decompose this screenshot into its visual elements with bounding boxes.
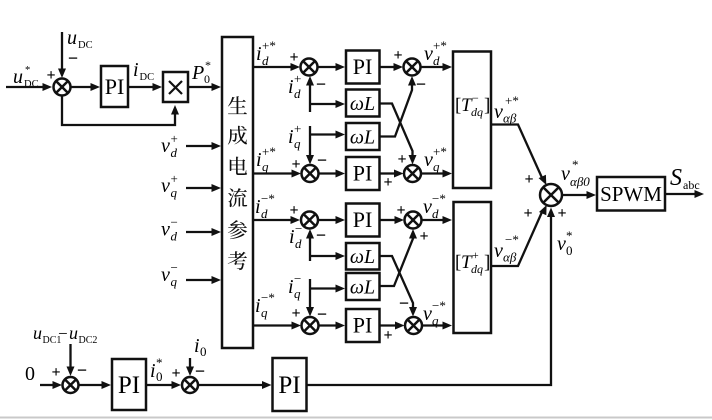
svg-text:DC: DC — [140, 72, 155, 83]
svg-text:+*: +* — [262, 38, 276, 53]
svg-text:0: 0 — [200, 344, 207, 359]
plus sign after PI5 — [383, 327, 392, 344]
svg-text:+: + — [291, 305, 300, 322]
svg-text:ωL: ωL — [350, 127, 375, 149]
svg-text:PI: PI — [353, 54, 373, 79]
node v_ab-* label — [494, 232, 519, 265]
wire i_d-* to summer S4 — [253, 216, 300, 224]
wire 0 into summer B1 — [40, 381, 62, 389]
svg-text:v: v — [561, 163, 570, 185]
svg-text:i: i — [150, 360, 156, 382]
svg-text:αβ: αβ — [503, 250, 517, 265]
svg-text:+: + — [51, 364, 60, 381]
svg-text:+: + — [289, 202, 298, 219]
summing junction B2 — [182, 377, 198, 393]
svg-text:−*: −* — [261, 290, 275, 305]
node i_q+ feedback label — [288, 121, 301, 151]
summing junction B1 — [63, 377, 79, 393]
node i_q-* label — [255, 290, 275, 320]
svg-text:0: 0 — [156, 369, 163, 384]
node zero reference label — [25, 363, 35, 385]
wire i_0 into summer B2 — [186, 358, 194, 376]
svg-text:−*: −* — [432, 191, 446, 206]
svg-text:v: v — [161, 175, 170, 197]
svg-text:v: v — [161, 264, 170, 286]
svg-text:DC2: DC2 — [79, 335, 98, 346]
svg-text:+: + — [557, 205, 566, 222]
minus sign at summer S3 — [317, 150, 327, 170]
node v_q- label — [161, 260, 178, 289]
wire i_q-* to summer S5 — [253, 322, 301, 330]
svg-text:u: u — [13, 66, 23, 88]
svg-text:+*: +* — [262, 144, 276, 159]
svg-text:−*: −* — [432, 298, 446, 313]
wire S1 to PI block PI1 — [70, 83, 100, 91]
node u_DC top input label — [67, 27, 93, 51]
PI controller PI5 — [346, 309, 380, 342]
summing junction S5 — [302, 317, 319, 334]
minus sign at junction J4 top — [399, 293, 409, 313]
node u_DC1 minus u_DC2 label — [33, 323, 97, 346]
svg-text:P: P — [191, 62, 204, 84]
svg-text:i: i — [289, 226, 295, 248]
plus sign final summer upper-left — [524, 171, 533, 188]
svg-text:i: i — [288, 76, 294, 98]
svg-text:S: S — [670, 165, 682, 191]
svg-text:+: + — [393, 47, 402, 64]
svg-text:αβ: αβ — [503, 111, 517, 126]
wire J1 to transform T1 — [420, 63, 452, 71]
svg-text:+*: +* — [433, 144, 447, 159]
svg-text:−*: −* — [261, 191, 275, 206]
wire PI6 to summer B2 — [146, 381, 181, 389]
node v_ab0* label — [561, 157, 590, 189]
wire J2 to transform T1 — [421, 170, 453, 178]
svg-text:PI: PI — [118, 372, 140, 399]
wire B2 to PI block PI7 — [198, 381, 272, 389]
wire feedback S1 to multiplier bottom — [62, 95, 179, 125]
svg-text:PI: PI — [353, 207, 373, 232]
plus sign at summer S2 — [289, 49, 298, 66]
summing junction S2 — [301, 59, 318, 76]
block: current reference generator (sheng cheng dian liu can kao) — [222, 37, 253, 348]
wire PI4 to junction J3 — [380, 216, 405, 224]
plus sign at summer S3 — [291, 156, 300, 173]
svg-text:−: − — [472, 91, 479, 105]
PI controller PI1 — [101, 66, 128, 107]
plus sign at summer S5 — [291, 305, 300, 322]
svg-text:d: d — [294, 86, 301, 101]
wire PI2 to junction J1 — [380, 63, 404, 71]
wire T2 output to final summer — [491, 205, 547, 266]
svg-text:i: i — [255, 196, 261, 218]
node S_abc output label — [670, 165, 700, 192]
svg-text:i: i — [133, 59, 139, 81]
plus sign at summer B1 — [51, 364, 60, 381]
svg-text:i: i — [256, 149, 262, 171]
svg-text:d: d — [261, 206, 268, 221]
node v_ab+* label — [494, 93, 519, 126]
svg-text:abc: abc — [683, 178, 700, 192]
PI controller PI7 — [273, 358, 307, 411]
wire P_0* into reference generator — [188, 83, 221, 91]
gain block wL1 — [346, 90, 380, 117]
node i_q+* label — [256, 144, 276, 174]
node i_0* label — [150, 355, 163, 384]
svg-text:−: − — [294, 271, 301, 286]
wire u_DC* into summer S1 — [6, 83, 52, 91]
wire i_d+ stub into summer S2 and branch to wL1 — [306, 76, 345, 112]
wire final summer to SPWM — [562, 191, 596, 199]
svg-text:+: + — [524, 171, 533, 188]
svg-text:0: 0 — [566, 243, 573, 258]
plus sign at junction J3 bottom — [419, 228, 428, 245]
wire v_d- into reference generator — [186, 228, 221, 236]
svg-text:u: u — [33, 323, 42, 343]
summing junction J4 — [405, 317, 422, 334]
svg-text:dq: dq — [471, 105, 483, 119]
svg-text:u: u — [67, 27, 77, 49]
summing junction S1 — [54, 79, 71, 96]
wire PI1 to multiplier — [128, 83, 162, 91]
svg-text:PI: PI — [105, 74, 125, 99]
wire v_0* from PI7 up to final summer — [307, 208, 556, 386]
svg-text:+: + — [171, 171, 178, 186]
svg-text:+: + — [472, 248, 479, 262]
wire T1 output to final summer — [491, 125, 546, 186]
svg-text:*: * — [572, 157, 579, 172]
svg-text:*: * — [205, 58, 211, 72]
svg-text:−: − — [68, 48, 78, 68]
svg-text:+: + — [383, 327, 392, 344]
svg-text:i: i — [288, 276, 294, 298]
plus sign at summer S4 — [289, 202, 298, 219]
wire wL2 cross-couple up to J1 — [380, 76, 417, 137]
node v_d+ label — [161, 131, 178, 160]
svg-text:PI: PI — [353, 313, 373, 338]
svg-text:−: − — [58, 324, 68, 343]
wire S5 to PI block PI5 — [318, 322, 345, 330]
svg-text:−: − — [317, 150, 327, 170]
plus sign at junction J3 — [396, 202, 405, 219]
svg-text:ωL: ωL — [350, 246, 375, 268]
svg-text:DC: DC — [78, 40, 93, 51]
svg-text:+: + — [397, 151, 406, 168]
minus sign at summer S5 — [317, 304, 327, 324]
svg-text:v: v — [494, 101, 503, 123]
svg-text:d: d — [171, 229, 178, 244]
svg-text:q: q — [171, 185, 178, 200]
node v_d-* label — [423, 191, 446, 221]
svg-text:−: − — [399, 293, 409, 313]
wire wL4 cross-couple up to J3 — [380, 229, 418, 286]
svg-text:*: * — [25, 65, 30, 76]
svg-text:−: − — [195, 361, 205, 381]
wire v_d+ into reference generator — [186, 142, 221, 150]
node v_q+ label — [161, 171, 178, 200]
wire v_q- into reference generator — [186, 276, 221, 284]
minus sign at junction J1 bottom — [416, 74, 426, 94]
minus sign at summer S1 — [68, 48, 78, 68]
gain block wL4 — [346, 273, 380, 300]
svg-text:−: − — [295, 221, 302, 236]
gain block wL3 — [346, 243, 380, 270]
svg-text:v: v — [423, 196, 432, 218]
summing junction J3 — [405, 212, 422, 229]
node P_0* label — [191, 58, 211, 86]
plus sign final summer lower-left — [523, 205, 532, 222]
wire v_q+ into reference generator — [186, 184, 221, 192]
wire S3 to PI block PI3 — [318, 170, 345, 178]
svg-text:d: d — [262, 53, 269, 68]
node i_d+* label — [256, 38, 276, 68]
wire i_d+* to summer S2 — [253, 63, 300, 71]
plus sign at summer B2 — [171, 365, 180, 382]
plus sign at summer S1 — [46, 67, 55, 84]
svg-text:d: d — [433, 53, 440, 68]
summing junction S3 — [302, 165, 319, 182]
svg-text:DC: DC — [24, 79, 39, 90]
svg-text:d: d — [171, 145, 178, 160]
svg-text:v: v — [424, 149, 433, 171]
node v_q-* label — [423, 298, 446, 328]
node i_d+ feedback label — [288, 71, 301, 101]
node v_0* label — [557, 228, 573, 258]
node i_d- feedback label — [289, 221, 302, 251]
svg-text:q: q — [294, 136, 301, 151]
svg-text:+: + — [419, 228, 428, 245]
wire PI3 to junction J2 — [380, 170, 404, 178]
svg-text:v: v — [423, 303, 432, 325]
svg-text:PI: PI — [353, 161, 373, 186]
plus sign at junction J2 top — [397, 151, 406, 168]
node v_d- label — [161, 215, 178, 244]
wire S4 to PI block PI4 — [318, 216, 346, 224]
PI controller PI3 — [346, 157, 380, 190]
minus sign at summer B1 — [77, 360, 87, 380]
wire i_q- stub into summer S5 and branch to wL4 — [306, 279, 345, 317]
svg-text:+: + — [383, 174, 392, 191]
summing junction J1 — [404, 59, 421, 76]
svg-text:q: q — [262, 159, 269, 174]
svg-text:0: 0 — [25, 363, 35, 385]
node i_q- feedback label — [288, 271, 301, 301]
svg-text:i: i — [288, 126, 294, 148]
multiplier block X1 — [163, 72, 188, 102]
svg-text:+: + — [289, 49, 298, 66]
svg-text:αβ0: αβ0 — [570, 174, 590, 189]
svg-text:0: 0 — [204, 72, 210, 86]
summing junction C (final) — [540, 184, 562, 206]
svg-text:v: v — [557, 233, 566, 255]
wire i_q+* to summer S3 — [253, 170, 301, 178]
node v_q+* label — [424, 144, 447, 174]
minus sign at summer S4 — [316, 225, 326, 245]
svg-text:−*: −* — [505, 232, 519, 247]
svg-text:]: ] — [484, 95, 490, 116]
wire B1 to PI block PI6 — [78, 381, 111, 389]
svg-text:+: + — [294, 71, 301, 86]
wire u_DC1-u_DC2 into summer B1 — [67, 344, 75, 376]
svg-text:−: − — [416, 74, 426, 94]
PI controller PI2 — [346, 51, 380, 84]
PI controller PI4 — [346, 204, 380, 237]
svg-text:+: + — [523, 205, 532, 222]
wire i_d- stub into summer S4 and branch to wL3 — [306, 229, 345, 261]
svg-text:ωL: ωL — [350, 93, 375, 115]
svg-text:−: − — [171, 215, 178, 230]
svg-text:*: * — [156, 355, 163, 370]
gain block wL2 — [346, 123, 380, 150]
svg-text:+: + — [294, 121, 301, 136]
summing junction S4 — [301, 212, 318, 229]
node i_0 feedback label — [194, 335, 207, 359]
node i_DC label — [133, 59, 154, 83]
transform block T1 [T_dq-] — [453, 52, 491, 189]
svg-text:v: v — [494, 240, 503, 262]
svg-text:]: ] — [484, 252, 490, 273]
svg-text:v: v — [424, 43, 433, 65]
wire J4 to transform T2 — [422, 322, 453, 330]
svg-text:+: + — [291, 156, 300, 173]
plus sign at junction J1 — [393, 47, 402, 64]
minus sign at summer B2 — [195, 361, 205, 381]
svg-text:+: + — [171, 131, 178, 146]
svg-text:−: − — [171, 260, 178, 275]
plus sign after PI3 — [383, 174, 392, 191]
node u_DC* input label — [13, 65, 39, 90]
svg-text:PI: PI — [278, 372, 300, 399]
svg-text:+*: +* — [433, 38, 447, 53]
svg-text:v: v — [161, 135, 170, 157]
wire i_q+ stub into summer S3 and branch to wL2 — [306, 126, 345, 165]
wire u_DC down into summer S1 — [58, 32, 66, 78]
summing junction J2 — [404, 165, 421, 182]
wire wL1 cross-couple down to J2 — [380, 104, 417, 165]
node i_d-* label — [255, 191, 275, 221]
svg-text:i: i — [255, 295, 261, 317]
svg-text:i: i — [194, 335, 200, 357]
svg-text:*: * — [566, 228, 573, 243]
svg-text:SPWM: SPWM — [600, 182, 662, 206]
wire PI5 to junction J4 — [380, 322, 405, 330]
svg-text:+*: +* — [505, 93, 519, 108]
svg-text:−: − — [316, 225, 326, 245]
svg-text:q: q — [171, 274, 178, 289]
svg-text:q: q — [261, 305, 268, 320]
svg-text:q: q — [433, 159, 440, 174]
svg-text:+: + — [171, 365, 180, 382]
minus sign at summer S2 — [316, 74, 326, 94]
svg-text:−: − — [77, 360, 87, 380]
transform block T2 [T_dq+] — [454, 202, 492, 333]
plus sign final summer lower-right — [557, 205, 566, 222]
svg-text:−: − — [316, 74, 326, 94]
wire SPWM output S_abc — [665, 190, 704, 198]
node v_d+* label — [424, 38, 447, 68]
PI controller PI6 — [112, 359, 146, 410]
wire J3 to transform T2 — [421, 216, 452, 224]
SPWM block — [597, 177, 665, 211]
wire wL3 cross-couple down to J4 — [380, 256, 418, 317]
svg-text:q: q — [294, 286, 301, 301]
svg-text:i: i — [256, 43, 262, 65]
wire S2 to PI block PI2 — [317, 63, 345, 71]
svg-text:dq: dq — [471, 262, 483, 276]
svg-text:ωL: ωL — [350, 277, 375, 299]
svg-text:d: d — [295, 236, 302, 251]
svg-text:u: u — [69, 323, 78, 343]
svg-text:d: d — [432, 206, 439, 221]
svg-text:v: v — [161, 219, 170, 241]
